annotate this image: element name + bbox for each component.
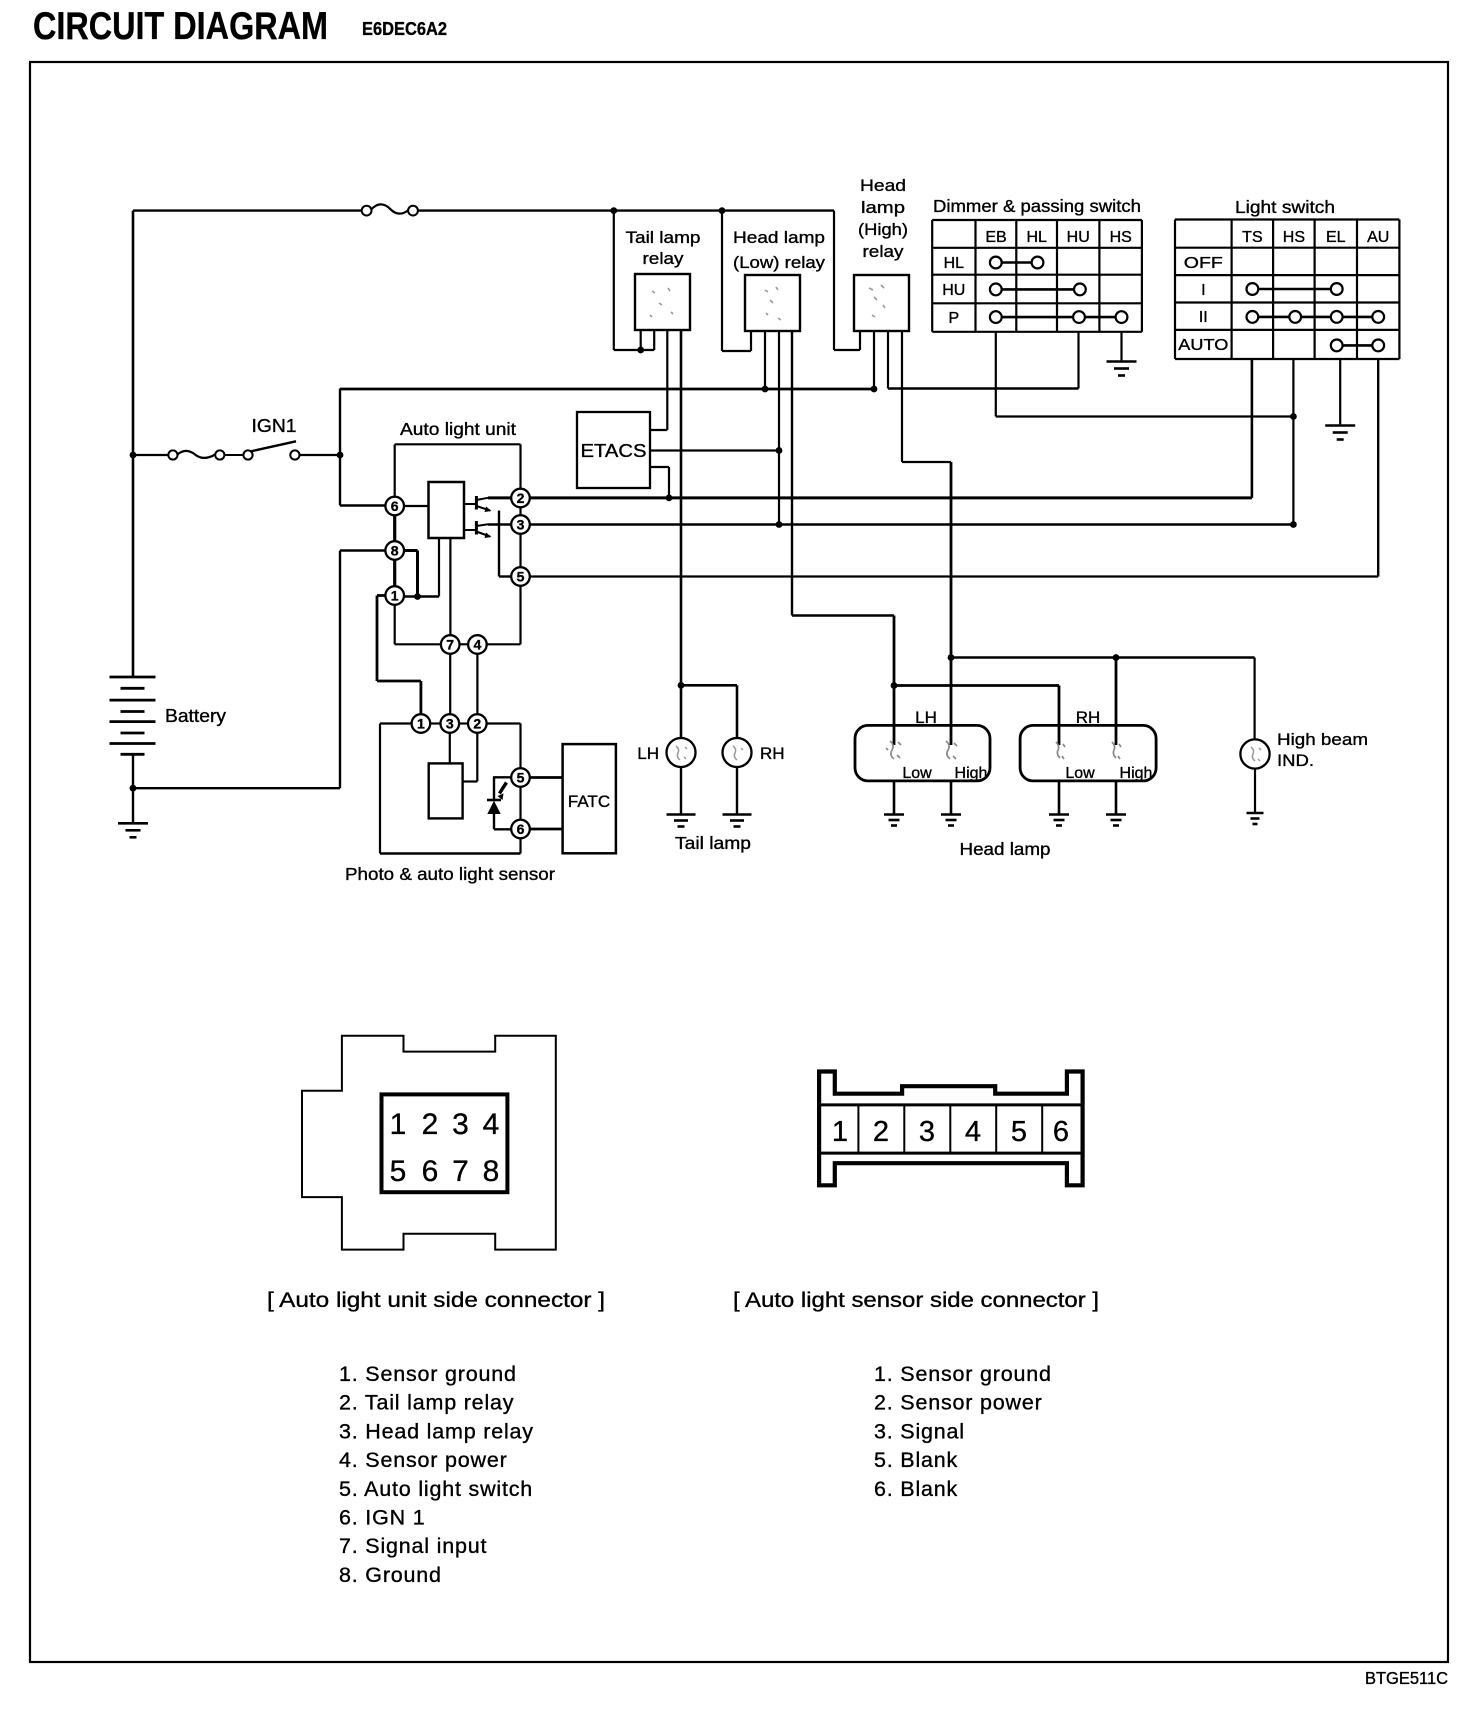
ground head RH high xyxy=(1106,815,1126,826)
svg-text:4. Sensor power: 4. Sensor power xyxy=(339,1448,508,1472)
svg-text:IND.: IND. xyxy=(1277,751,1314,770)
junction dot top bus head lamp low relay drop xyxy=(719,207,726,214)
wire sensor5 to fatc xyxy=(530,776,563,779)
label auto light sensor side connector xyxy=(733,1288,1099,1312)
svg-text:Low: Low xyxy=(902,765,932,782)
label lightswitch row II xyxy=(1199,309,1208,326)
wire dimmer EB column drop xyxy=(995,332,997,417)
label Auto light unit xyxy=(400,419,516,439)
wire transistor to terminal2 xyxy=(488,496,511,499)
svg-text:2: 2 xyxy=(873,1116,889,1148)
wire head high relay drop horizontal xyxy=(834,349,860,351)
svg-text:1. Sensor ground: 1. Sensor ground xyxy=(339,1362,517,1386)
wire head high relay drop vertical xyxy=(833,211,835,350)
relay head lamp high relay xyxy=(854,275,909,331)
svg-text:5. Auto light switch: 5. Auto light switch xyxy=(339,1477,533,1501)
svg-text:5: 5 xyxy=(517,569,525,585)
svg-text:FATC: FATC xyxy=(568,792,610,811)
svg-text:3: 3 xyxy=(919,1116,935,1148)
wire terminal5 bus xyxy=(530,575,1378,577)
wire head LH high to ground xyxy=(950,781,953,815)
label lightswitch col HS xyxy=(1283,229,1305,246)
svg-text:HU: HU xyxy=(942,282,965,299)
label head lamp high relay xyxy=(858,176,908,261)
wire tail lamp RH branch xyxy=(681,685,737,738)
ground lightswitch EL xyxy=(1325,426,1355,440)
box head lamp LH xyxy=(855,725,990,781)
wire etacs pin2 to head low pin3 xyxy=(650,449,779,451)
svg-text:4: 4 xyxy=(474,637,482,653)
wire top bus right segment xyxy=(418,209,834,211)
svg-text:1: 1 xyxy=(391,588,399,604)
svg-text:II: II xyxy=(1199,309,1208,326)
junction dot HS column on terminal3 bus xyxy=(1290,521,1297,528)
svg-text:(High): (High) xyxy=(858,220,908,239)
ground tail lamp RH xyxy=(723,815,752,827)
label High beam IND xyxy=(1277,730,1368,770)
connector sensor pin numbers xyxy=(832,1116,1069,1148)
wire tail relay drop vertical xyxy=(613,211,615,350)
photodiode sensor xyxy=(487,777,511,829)
svg-text:Auto light unit: Auto light unit xyxy=(400,419,516,439)
junction dot head low pin3 terminal3 bus xyxy=(776,521,783,528)
ic sensor internal xyxy=(429,763,463,818)
svg-text:BTGE511C: BTGE511C xyxy=(1365,1668,1448,1688)
junction dot head low relay pin2 on ign bus xyxy=(762,386,769,393)
svg-text:OFF: OFF xyxy=(1184,255,1223,272)
wire tail relay pin4 to tail lamps xyxy=(680,330,683,738)
terminal unit 4 xyxy=(468,635,487,654)
battery Battery xyxy=(110,677,156,754)
terminal unit 6 xyxy=(385,497,404,516)
svg-text:HL: HL xyxy=(1026,229,1047,246)
ground head LH low xyxy=(884,815,904,826)
svg-text:1: 1 xyxy=(832,1116,848,1148)
wire head LH low to ground xyxy=(893,781,896,815)
label dimmer col HS xyxy=(1110,229,1132,246)
label tail LH xyxy=(637,744,659,763)
wire dimmer HU column drop xyxy=(1077,332,1079,389)
relay head lamp low relay xyxy=(745,275,800,331)
svg-text:Tail lamp: Tail lamp xyxy=(675,833,751,853)
junction dot ign node xyxy=(337,452,344,459)
svg-text:Light switch: Light switch xyxy=(1235,197,1335,217)
wire tail relay drop horizontal xyxy=(614,349,654,351)
svg-text:8: 8 xyxy=(391,543,399,559)
transistor driver tail output xyxy=(464,496,492,512)
terminal sensor 3 xyxy=(441,714,460,733)
svg-text:IGN1: IGN1 xyxy=(252,416,297,436)
contacts lightswitch row II xyxy=(1247,311,1385,323)
wire sensor3 to ic xyxy=(449,733,451,764)
label dimmer row HL xyxy=(944,255,965,272)
table dimmer and passing switch grid xyxy=(932,220,1142,332)
junction dot head low pin3 etacs wire xyxy=(776,447,783,454)
svg-text:P: P xyxy=(948,310,959,327)
svg-text:LH: LH xyxy=(915,708,937,727)
wire high beam bus to indicator xyxy=(951,656,1255,658)
svg-text:3: 3 xyxy=(446,716,454,732)
svg-text:LH: LH xyxy=(637,744,659,763)
svg-text:Battery: Battery xyxy=(165,706,226,726)
svg-text:2: 2 xyxy=(473,716,481,732)
label head lamp low relay xyxy=(733,228,826,272)
table light switch grid xyxy=(1175,220,1399,360)
wire terminal7 to sensor3 xyxy=(449,654,451,714)
wire ign node to terminal 6 xyxy=(340,504,385,506)
wire transistor to terminal3 xyxy=(488,523,511,525)
wire terminal6 to ic xyxy=(404,505,429,507)
label ETACS xyxy=(581,441,647,461)
wire high beam ind to ground xyxy=(1254,769,1256,813)
relay tail lamp relay xyxy=(635,274,690,330)
wire dimmer HS column drop xyxy=(1120,332,1122,361)
junction dot low beam split xyxy=(891,682,898,689)
svg-text:HL: HL xyxy=(944,255,965,272)
module FATC xyxy=(563,744,616,853)
wire ic pin to sensor ground node xyxy=(438,538,440,597)
svg-text:3. Signal: 3. Signal xyxy=(874,1419,965,1443)
wire high beam bus segment B xyxy=(888,387,1079,389)
label tail RH xyxy=(760,744,785,763)
label lightswitch row AUTO xyxy=(1178,337,1228,354)
junction dot head high relay pin2 on ign bus xyxy=(871,386,878,393)
wire ign1 to auto light unit node xyxy=(300,454,341,456)
label FATC xyxy=(568,792,610,811)
label head RH Low xyxy=(1065,765,1095,782)
ground head RH low xyxy=(1049,815,1069,826)
svg-text:8. Ground: 8. Ground xyxy=(339,1563,442,1587)
wire battery positive vertical xyxy=(132,211,135,677)
label lightswitch row OFF xyxy=(1184,255,1223,272)
contacts lightswitch row I xyxy=(1247,283,1343,295)
svg-text:HU: HU xyxy=(1067,229,1090,246)
contacts dimmer row P xyxy=(990,311,1128,323)
wire etacs pin3 bend xyxy=(650,467,669,498)
title code E6DEC6A2 xyxy=(362,19,447,39)
ground tail lamp LH xyxy=(667,815,696,827)
label IGN1 xyxy=(252,416,297,436)
wire terminal3 bus xyxy=(530,523,1294,525)
list auto light unit pin functions xyxy=(339,1362,534,1587)
ground dimmer HS xyxy=(1107,362,1137,376)
wire lightswitch AU column drop xyxy=(1377,359,1379,577)
contacts dimmer row HU xyxy=(990,284,1086,296)
wire head low relay pin3 drop xyxy=(778,331,780,525)
terminal sensor 1 xyxy=(412,714,431,733)
svg-text:6: 6 xyxy=(517,821,525,837)
svg-text:3. Head lamp relay: 3. Head lamp relay xyxy=(339,1419,534,1443)
svg-text:HS: HS xyxy=(1283,229,1305,246)
label head lamp RH xyxy=(1076,708,1101,727)
terminal sensor 2 xyxy=(468,714,487,733)
bulbs head lamp LH xyxy=(886,741,957,759)
label head RH High xyxy=(1120,765,1153,782)
wire head high relay pin4 to high beams xyxy=(902,331,951,745)
list auto light sensor pin functions xyxy=(874,1362,1052,1501)
terminal unit 5 xyxy=(511,567,530,586)
label head LH Low xyxy=(902,765,932,782)
svg-text:2: 2 xyxy=(422,1108,439,1141)
wire lightswitch EL column drop xyxy=(1339,359,1341,424)
svg-text:AUTO: AUTO xyxy=(1178,337,1228,354)
box photo auto light sensor xyxy=(380,724,521,854)
svg-text:5: 5 xyxy=(517,770,525,786)
label auto light unit side connector xyxy=(267,1288,605,1312)
svg-text:7. Signal input: 7. Signal input xyxy=(339,1534,487,1558)
wire high beam indicator drop xyxy=(1253,658,1255,740)
terminal unit 3 xyxy=(511,515,530,534)
svg-text:1: 1 xyxy=(417,716,425,732)
lamp high beam indicator xyxy=(1240,739,1269,768)
junction dot tail relay pin1 xyxy=(637,347,644,354)
box auto light unit xyxy=(395,444,521,644)
label dimmer col HL xyxy=(1026,229,1047,246)
label Photo & auto light sensor xyxy=(345,864,555,884)
wire ic pin to terminal7 xyxy=(449,538,451,635)
svg-text:High: High xyxy=(955,765,988,782)
connector unit pin numbers row1 xyxy=(390,1108,500,1141)
svg-text:1: 1 xyxy=(390,1108,407,1141)
wire dimmer EB to light switch HS xyxy=(996,415,1294,417)
wire sensor6 to fatc xyxy=(530,828,563,831)
lamp tail RH xyxy=(723,738,752,767)
junction dot battery negative xyxy=(130,785,137,792)
svg-text:6. Blank: 6. Blank xyxy=(874,1477,958,1501)
wire low beam RH branch xyxy=(894,686,1059,746)
svg-text:relay: relay xyxy=(863,242,905,261)
svg-text:5: 5 xyxy=(390,1155,407,1188)
svg-text:5: 5 xyxy=(1011,1116,1027,1148)
svg-text:Head lamp: Head lamp xyxy=(733,228,825,247)
bulbs head lamp RH xyxy=(1056,742,1121,759)
junction dot high beam split LH xyxy=(948,654,955,661)
label Tail lamp xyxy=(675,833,751,853)
wire ign1 feed xyxy=(133,454,168,456)
svg-text:Head lamp: Head lamp xyxy=(960,839,1051,859)
label Light switch xyxy=(1235,197,1335,217)
terminal unit 7 xyxy=(441,635,460,654)
label dimmer col EB xyxy=(985,229,1006,246)
label lightswitch col AU xyxy=(1367,229,1389,246)
svg-text:High beam: High beam xyxy=(1277,730,1368,749)
svg-text:Low: Low xyxy=(1065,765,1095,782)
footer code BTGE511C xyxy=(1365,1668,1448,1688)
connector sensor pin band xyxy=(819,1105,1083,1153)
label dimmer col HU xyxy=(1067,229,1090,246)
wire terminal1 to sensor1 xyxy=(377,596,421,715)
junction dot etacs pin3 on terminal2 bus xyxy=(666,495,673,502)
label lightswitch col TS xyxy=(1242,229,1262,246)
wire head high relay pin1 stub xyxy=(859,331,861,350)
connector auto light sensor side outline xyxy=(819,1072,1083,1186)
wire tail relay pin3 to etacs xyxy=(650,330,667,430)
svg-text:I: I xyxy=(1201,282,1205,299)
svg-text:7: 7 xyxy=(446,637,454,653)
wire terminal2 bus xyxy=(530,496,1252,499)
svg-text:relay: relay xyxy=(643,249,685,268)
svg-text:Photo & auto light sensor: Photo & auto light sensor xyxy=(345,864,555,884)
svg-text:EB: EB xyxy=(985,229,1006,246)
wire top bus left segment xyxy=(133,209,362,211)
wire terminal8 to ground node xyxy=(404,551,418,597)
wire sensor2 to ic xyxy=(463,733,478,782)
ground battery xyxy=(118,823,148,837)
contacts dimmer row HL xyxy=(990,257,1044,269)
svg-text:4: 4 xyxy=(483,1108,500,1141)
terminal unit 2 xyxy=(511,489,530,508)
wire terminal8 to battery ground xyxy=(133,551,385,789)
junction dot high beam split RH xyxy=(1113,654,1120,661)
svg-text:Head: Head xyxy=(860,176,906,195)
svg-text:lamp: lamp xyxy=(861,198,905,217)
wire tail relay pin2 stub xyxy=(653,331,655,350)
wire tail relay pin1 stub xyxy=(640,330,642,350)
wire head RH low to ground xyxy=(1058,781,1061,815)
label Head lamp xyxy=(960,839,1051,859)
box head lamp RH xyxy=(1020,725,1156,781)
svg-text:8: 8 xyxy=(483,1155,500,1188)
wire emitter rail to terminal5 xyxy=(499,511,511,577)
wire lightswitch TS column drop xyxy=(1251,359,1254,498)
title text CIRCUIT DIAGRAM xyxy=(33,5,328,48)
svg-text:7: 7 xyxy=(452,1155,469,1188)
svg-text:E6DEC6A2: E6DEC6A2 xyxy=(362,19,447,39)
lamp tail LH xyxy=(667,738,696,767)
svg-text:AU: AU xyxy=(1367,229,1389,246)
svg-text:6: 6 xyxy=(422,1155,439,1188)
connector auto light unit side outline xyxy=(302,1036,556,1250)
svg-text:HS: HS xyxy=(1110,229,1132,246)
label lightswitch row I xyxy=(1201,282,1205,299)
terminal unit 1 xyxy=(385,586,404,605)
module ETACS xyxy=(577,412,650,488)
svg-text:2: 2 xyxy=(517,490,525,506)
label lightswitch col EL xyxy=(1326,229,1346,246)
junction dot EB wire on HS column xyxy=(1290,413,1297,420)
svg-text:2. Sensor power: 2. Sensor power xyxy=(874,1391,1043,1415)
wire ign bus segment A xyxy=(340,388,874,391)
wire terminal4 to sensor2 xyxy=(476,654,478,714)
contacts lightswitch row AUTO xyxy=(1331,340,1384,352)
svg-text:4: 4 xyxy=(965,1116,981,1148)
svg-text:TS: TS xyxy=(1242,229,1262,246)
junction dot top bus tail relay drop xyxy=(610,207,617,214)
wire head RH high to ground xyxy=(1115,781,1118,815)
label Dimmer & passing switch xyxy=(933,196,1141,216)
svg-text:[ Auto light unit side connect: [ Auto light unit side connector ] xyxy=(267,1288,605,1312)
svg-text:Tail lamp: Tail lamp xyxy=(626,228,701,247)
connector unit pin grid xyxy=(382,1094,508,1192)
svg-text:(Low) relay: (Low) relay xyxy=(733,253,826,272)
label head lamp LH xyxy=(915,708,937,727)
label dimmer row HU xyxy=(942,282,965,299)
label tail lamp relay xyxy=(626,228,701,268)
svg-text:ETACS: ETACS xyxy=(581,441,647,461)
ic auto light unit internal xyxy=(429,482,465,538)
terminal sensor 5 xyxy=(511,768,530,787)
svg-text:3: 3 xyxy=(452,1108,469,1141)
fuse F1 xyxy=(362,204,418,215)
svg-text:6: 6 xyxy=(391,498,399,514)
svg-text:2. Tail lamp relay: 2. Tail lamp relay xyxy=(339,1391,514,1415)
junction dot battery ign tap xyxy=(130,452,137,459)
svg-text:RH: RH xyxy=(760,744,785,763)
switch IGN1 xyxy=(168,441,299,459)
wire tail RH to ground xyxy=(736,767,738,815)
wire head high relay pin2 drop xyxy=(873,331,875,389)
wire terminal1 node xyxy=(404,595,439,597)
svg-text:RH: RH xyxy=(1076,708,1101,727)
wire head low relay drop horizontal xyxy=(722,350,751,352)
junction dot ground node xyxy=(414,593,421,600)
ground high beam ind xyxy=(1247,813,1264,824)
transistor driver head output xyxy=(464,521,492,538)
wire battery negative xyxy=(132,754,134,823)
ground head LH high xyxy=(941,815,961,826)
wire ign node vertical xyxy=(339,389,341,506)
label dimmer row P xyxy=(948,310,959,327)
junction dot tail lamp split xyxy=(678,682,685,689)
svg-text:5. Blank: 5. Blank xyxy=(874,1448,958,1472)
svg-text:Dimmer & passing switch: Dimmer & passing switch xyxy=(933,196,1141,216)
wire head low relay pin2 drop xyxy=(764,331,766,389)
svg-text:6: 6 xyxy=(1053,1116,1069,1148)
label head LH High xyxy=(955,765,988,782)
terminal unit 8 xyxy=(385,541,404,560)
connector unit pin numbers row2 xyxy=(390,1155,500,1188)
wire head low relay pin1 stub xyxy=(750,331,752,351)
wire head low relay drop vertical xyxy=(721,211,723,351)
svg-text:6. IGN 1: 6. IGN 1 xyxy=(339,1506,425,1530)
terminal sensor 6 xyxy=(511,820,530,839)
wire tail LH to ground xyxy=(680,767,682,815)
wire head low relay pin4 to low beams xyxy=(792,331,894,745)
svg-text:High: High xyxy=(1120,765,1153,782)
wire head high relay pin3 stub xyxy=(887,331,889,389)
wire high beam RH branch xyxy=(1115,658,1118,746)
svg-text:3: 3 xyxy=(517,517,525,533)
label Battery xyxy=(165,706,226,726)
svg-text:CIRCUIT DIAGRAM: CIRCUIT DIAGRAM xyxy=(33,5,328,48)
svg-text:[ Auto light sensor side conne: [ Auto light sensor side connector ] xyxy=(733,1288,1099,1312)
svg-text:EL: EL xyxy=(1326,229,1346,246)
wire lightswitch HS column drop xyxy=(1292,359,1294,525)
svg-text:1. Sensor ground: 1. Sensor ground xyxy=(874,1362,1052,1386)
